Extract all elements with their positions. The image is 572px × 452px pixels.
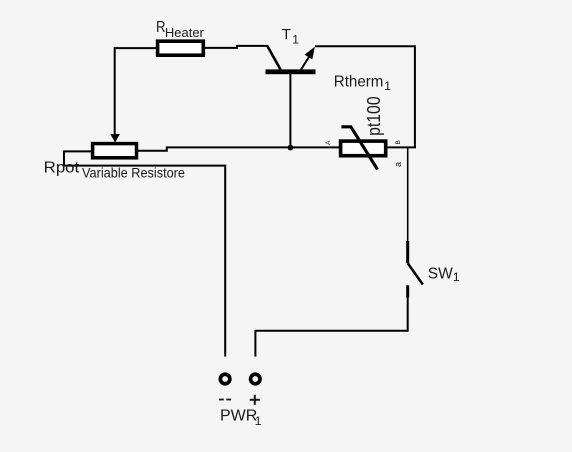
svg-text:a: a bbox=[393, 162, 403, 167]
svg-text:1: 1 bbox=[453, 270, 460, 284]
svg-text:T: T bbox=[282, 26, 291, 43]
svg-text:1: 1 bbox=[255, 414, 262, 428]
svg-text:B: B bbox=[395, 140, 402, 144]
svg-text:Variable Resistore: Variable Resistore bbox=[82, 165, 185, 181]
svg-text:SW: SW bbox=[428, 265, 454, 282]
svg-text:pt100: pt100 bbox=[363, 96, 384, 136]
svg-text:1: 1 bbox=[292, 33, 299, 47]
svg-text:Rtherm: Rtherm bbox=[334, 73, 384, 90]
svg-text:1: 1 bbox=[384, 79, 391, 93]
svg-text:PWR: PWR bbox=[220, 408, 257, 425]
svg-text:Rpot: Rpot bbox=[44, 159, 80, 176]
svg-text:A: A bbox=[325, 140, 332, 145]
svg-text:Heater: Heater bbox=[165, 25, 205, 40]
